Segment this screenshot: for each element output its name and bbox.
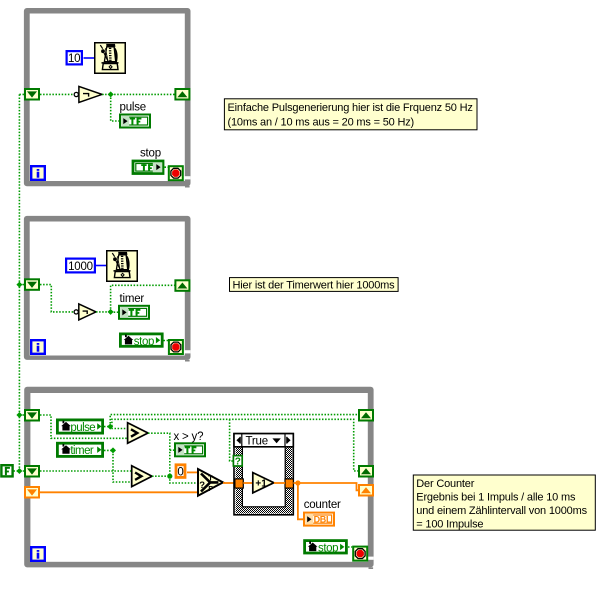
svg-text:10: 10	[68, 53, 80, 65]
svg-text:counter: counter	[304, 499, 341, 511]
wire: orange shift register 3 to select f input	[40, 491, 198, 493]
svg-text:pulse: pulse	[120, 102, 147, 114]
wire: stop local variable to loop condition terminal loop 2	[164, 340, 169, 342]
shift register right 1 loop 3	[359, 410, 373, 421]
wire: second rail from junction to case selector and right shift register 2	[112, 419, 359, 471]
shift register left loop 2	[25, 279, 39, 290]
label timer	[120, 293, 145, 305]
boolean constant F	[1, 465, 12, 476]
svg-text:?: ?	[235, 456, 241, 467]
wire: stub from vertical wire to left shift register loop 1	[19, 93, 24, 95]
wire: stub vertical wire to left shift register loop 2	[19, 284, 24, 286]
wire junction circle	[167, 474, 172, 479]
svg-text:timer: timer	[70, 445, 94, 457]
svg-text:0: 0	[177, 467, 183, 479]
loop condition terminal (stop sign) loop 1	[169, 166, 183, 180]
increment function +1	[253, 473, 274, 493]
svg-text:und einem Zählintervall von 10: und einem Zählintervall von 1000ms	[416, 505, 587, 517]
wire: junction down to pulse indicator loop 1	[111, 94, 119, 121]
wire junction on vertical wire at loop 2	[16, 282, 22, 288]
boolean indicator x>y (TF)	[175, 443, 205, 456]
iteration terminal i loop 3	[31, 547, 45, 561]
svg-text:True: True	[246, 435, 268, 447]
wire: pulse junction to greater gate 1 upper input	[110, 427, 127, 429]
wire: blue from constant 1000 to wait function	[96, 265, 107, 267]
wire: branch down from second rail to case selector tunnel	[230, 419, 234, 461]
annotation box 2	[230, 278, 399, 292]
svg-text:Der Counter: Der Counter	[416, 478, 474, 490]
label pulse	[120, 102, 147, 114]
wire junction loop 2	[108, 309, 114, 315]
wire: vertical boolean wire from F constant up to loop 1 shift register	[18, 94, 20, 471]
svg-text:x > y?: x > y?	[174, 431, 204, 443]
while loop 1 border	[24, 8, 191, 188]
svg-text:DBL: DBL	[314, 515, 332, 525]
wire: stub to top-left shift register loop 3	[19, 414, 24, 416]
NOT gate loop 1	[74, 86, 102, 102]
case left tunnel (orange)	[235, 479, 243, 488]
svg-text:pulse: pulse	[70, 422, 95, 434]
wire: NOT output to junction loop 2	[96, 311, 111, 313]
shift register left 3 (orange) loop 3	[25, 487, 39, 498]
wire: increment to right tunnel	[274, 482, 285, 484]
greater gate 2	[132, 466, 152, 487]
shift register right loop 2	[175, 280, 189, 291]
case right tunnel (orange)	[285, 479, 293, 488]
wire: junction to right shift register loop 1	[111, 93, 175, 95]
wire: stop control to loop condition terminal loop 1	[165, 166, 169, 168]
loop condition terminal (stop sign) loop 2	[169, 340, 183, 354]
wire: top shift register down to greater gate 1 lower input	[40, 415, 128, 438]
numeric constant 10	[67, 51, 82, 65]
wire: select output to case structure left tunnel	[223, 482, 235, 484]
local variable pulse	[57, 420, 102, 434]
shift register left 2 loop 3	[25, 466, 39, 477]
local variable stop loop 3	[305, 541, 347, 555]
svg-text:?: ?	[199, 480, 205, 491]
svg-text:= 100 Impulse: = 100 Impulse	[416, 519, 483, 531]
shift register right loop 1	[175, 89, 189, 100]
numeric constant 1000	[66, 259, 95, 273]
wire: left shift register down to NOT gate loop 2	[40, 285, 74, 312]
svg-text:Einfache Pulsgenerierung hier: Einfache Pulsgenerierung hier ist die Fr…	[228, 102, 473, 114]
wire: junction down to counter indicator	[298, 483, 303, 519]
wire: greater gate 1 output down to TF indicator and junction	[148, 433, 170, 476]
wire: right tunnel to orange junction and right shift register	[293, 483, 359, 490]
label x > y?	[174, 431, 204, 443]
wire: junction down to select s input	[170, 476, 198, 483]
label counter	[304, 499, 341, 511]
wire junction on vertical wire at F constant	[16, 468, 22, 474]
wire: junction up and right to right shift register loop 2	[111, 285, 175, 312]
wire: left tunnel to increment	[243, 482, 253, 484]
greater gate 1	[128, 423, 148, 444]
svg-text:timer: timer	[120, 293, 145, 305]
local variable timer	[57, 443, 102, 457]
svg-text:+1: +1	[255, 479, 267, 490]
wire: junction up to top rail and right to top-right shift register	[110, 415, 359, 427]
wire: greater gate 2 output to junction	[152, 475, 170, 477]
shift register right 2 loop 3	[359, 466, 373, 477]
numeric indicator counter (DBL)	[304, 513, 334, 526]
NOT gate loop 2	[74, 304, 96, 320]
case structure	[234, 434, 293, 515]
annotation box 1	[224, 99, 477, 130]
svg-text:stop: stop	[134, 336, 154, 348]
wire: timer local to junction and down to greater gate 2 lower input	[104, 450, 132, 482]
numeric constant 0 (orange)	[176, 465, 185, 479]
while loop 3 border	[24, 387, 373, 569]
label stop	[140, 148, 161, 160]
wire junction on vertical wire at loop 3 top shift register	[16, 412, 22, 418]
svg-text:(10ms an / 10 ms aus = 20 ms =: (10ms an / 10 ms aus = 20 ms = 50 Hz)	[228, 116, 415, 128]
wire: NOT gate output to junction loop 1	[102, 93, 111, 95]
wire junction at timer local variable output	[110, 447, 116, 453]
wire junction orange dot	[295, 480, 300, 485]
shift register right 3 (orange) loop 3	[359, 485, 373, 496]
svg-text:stop: stop	[318, 543, 338, 555]
svg-text:T: T	[208, 474, 213, 483]
wire: shift register to NOT gate loop 1	[40, 93, 74, 95]
iteration terminal i loop 2	[31, 340, 45, 354]
svg-text:Hier ist der Timerwert hier 10: Hier ist der Timerwert hier 1000ms	[233, 279, 396, 291]
wire: pulse local to junction	[104, 426, 110, 428]
boolean control stop (TF)	[133, 161, 163, 174]
case selector tunnel ?	[233, 456, 242, 468]
boolean indicator timer (TF)	[119, 306, 149, 319]
wait until next ms multiple function (metronome icon) loop 1	[95, 43, 126, 74]
select function	[198, 469, 223, 496]
shift register left loop 1	[25, 89, 39, 100]
wire junction at pulse local variable output	[107, 424, 113, 430]
svg-text:1000: 1000	[68, 261, 93, 273]
annotation box 3	[413, 475, 595, 531]
while loop 2 border	[24, 216, 191, 362]
svg-text:stop: stop	[140, 148, 161, 160]
svg-text:Ergebnis bei 1 Impuls / alle 1: Ergebnis bei 1 Impuls / alle 10 ms	[416, 492, 576, 504]
wire: shift register 2 to greater gate 2 upper input	[40, 470, 132, 472]
boolean indicator pulse (TF)	[120, 115, 150, 128]
local variable stop loop 2	[120, 334, 162, 348]
wire: branch into x>y indicator	[170, 449, 175, 451]
wire: junction to timer indicator loop 2	[111, 311, 118, 313]
wire: stop local variable to loop condition terminal loop 3	[348, 546, 352, 548]
iteration terminal i loop 1	[31, 166, 45, 180]
shift register left 1 loop 3	[25, 410, 39, 421]
wire: constant 0 to select t input	[187, 471, 198, 473]
loop condition terminal (stop sign) loop 3	[353, 547, 367, 561]
wire: F constant to left shift register 2 loop 3	[14, 470, 25, 472]
svg-text:F: F	[208, 484, 213, 493]
wait until next ms multiple function (metronome icon) loop 2	[107, 251, 138, 282]
wire junction loop 1	[108, 91, 114, 97]
wire: blue from constant 10 to wait function	[84, 57, 96, 59]
